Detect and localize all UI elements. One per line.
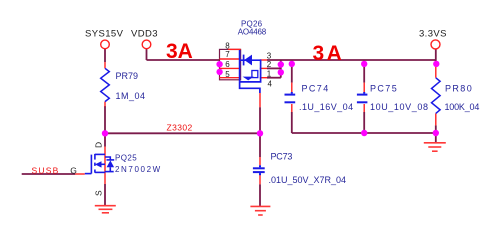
- svg-text:1: 1: [267, 69, 272, 78]
- svg-text:100K_04: 100K_04: [445, 102, 480, 112]
- svg-text:5: 5: [225, 70, 230, 79]
- svg-text:G: G: [70, 165, 77, 175]
- svg-text:PC75: PC75: [370, 83, 398, 93]
- svg-text:SYS15V: SYS15V: [85, 29, 124, 40]
- svg-text:3A: 3A: [313, 42, 345, 65]
- svg-text:.01U_50V_X7R_04: .01U_50V_X7R_04: [269, 175, 347, 185]
- svg-text:4: 4: [268, 80, 273, 89]
- svg-text:2: 2: [267, 60, 272, 69]
- svg-text:.1U_16V_04: .1U_16V_04: [299, 102, 354, 112]
- svg-text:AO4468: AO4468: [238, 27, 267, 36]
- svg-text:3.3VS: 3.3VS: [419, 29, 447, 40]
- svg-text:10U_10V_08: 10U_10V_08: [370, 102, 429, 112]
- svg-text:2N7002W: 2N7002W: [115, 165, 162, 174]
- svg-text:7: 7: [225, 50, 230, 59]
- svg-text:PC73: PC73: [271, 151, 293, 161]
- svg-text:PQ25: PQ25: [115, 154, 137, 163]
- svg-text:1M_04: 1M_04: [116, 91, 146, 101]
- svg-text:Z3302: Z3302: [167, 122, 193, 132]
- svg-text:PR80: PR80: [445, 83, 473, 93]
- svg-text:3A: 3A: [166, 40, 193, 63]
- svg-text:S: S: [94, 190, 104, 196]
- svg-text:6: 6: [225, 60, 230, 69]
- svg-text:SUSB: SUSB: [32, 165, 60, 175]
- svg-text:PR79: PR79: [116, 71, 139, 81]
- svg-text:D: D: [94, 142, 104, 148]
- svg-text:PC74: PC74: [302, 83, 330, 93]
- svg-text:VDD3: VDD3: [131, 29, 158, 40]
